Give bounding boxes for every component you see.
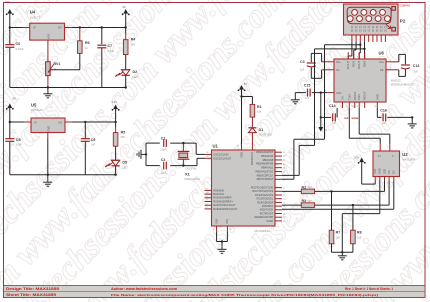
svg-text:2k2: 2k2 [308,200,313,203]
svg-text:GND: GND [378,168,382,174]
ground (C16) [408,124,417,128]
svg-text:SO: SO [392,170,396,174]
wire 5V branch to R1 [242,97,253,105]
ground (crystal) [137,150,146,159]
wire section2 ground bus [10,174,116,176]
svg-text:VI: VI [33,26,36,30]
svg-text:U1: U1 [213,144,219,149]
svg-text:D5: D5 [122,161,127,165]
svg-text:RA1/AN1: RA1/AN1 [213,192,224,196]
wire to OSC1 [196,143,204,154]
svg-text:10uF: 10uF [16,143,22,147]
svg-text:PIC16F84A: PIC16F84A [255,229,271,233]
svg-text:RC3/SCK/SCL: RC3/SCK/SCL [256,197,273,201]
svg-text:Author: www.fadstechsessions.c: Author: www.fadstechsessions.com [111,287,177,291]
power terminal -5V (down arrow) [318,117,327,132]
svg-text:red: red [344,116,349,120]
svg-text:RA4/T0CKI/C1OUT: RA4/T0CKI/C1OUT [213,203,236,207]
svg-text:SCK: SCK [382,168,386,174]
resistor R8 [351,205,362,252]
crystal X1 [178,143,201,181]
svg-text:File Name: electronicscomponen: File Name: electronicscomponent-testing/… [111,293,378,297]
svg-text:LM78L05: LM78L05 [31,108,43,112]
wire TX net (RB7 to P2) [282,45,360,180]
junction node 9V/C8 [9,121,11,123]
svg-text:T+: T+ [378,154,382,158]
wire RX net (RB6 to P2) [282,49,365,175]
svg-text:T1OUT: T1OUT [346,61,350,70]
power terminal 5V [238,82,248,144]
svg-text:Sheet Title: MAX31855: Sheet Title: MAX31855 [6,293,56,297]
svg-text:1uF: 1uF [300,68,305,72]
svg-text:C6: C6 [16,42,21,46]
svg-text:2k2: 2k2 [308,186,313,189]
svg-text:Rev: 1 Sheet #: 1 Num of S: Rev: 1 Sheet #: 1 Num of Sheets: 1 [345,287,393,291]
resistor R2 [301,185,314,193]
svg-text:VS-: VS- [341,96,345,100]
svg-text:1uF: 1uF [381,121,386,125]
svg-text:white: white [351,116,359,120]
junction node ground stem [341,251,343,253]
svg-text:C3: C3 [300,60,305,64]
svg-text:COMPIM: COMPIM [399,5,409,8]
svg-text:OSC1/CLKIN: OSC1/CLKIN [213,152,228,156]
svg-text:VSS: VSS [225,219,229,224]
LED D2 [115,55,137,88]
svg-text:C13: C13 [413,64,420,68]
junction node C16 right [411,116,413,118]
svg-text:T2IN: T2IN [357,94,361,100]
wire U1 VSS pins to ground [217,232,228,249]
junction node D5 to bus [114,174,116,176]
svg-text:FREQ=1MHz: FREQ=1MHz [185,177,201,181]
svg-text:VCC: VCC [336,91,342,95]
junction node RX join [363,48,365,50]
svg-text:R1OUT: R1OUT [353,91,357,100]
svg-text:R7: R7 [336,230,341,234]
regulator U5 LM78L05 [27,102,68,132]
junction node 5V/R1 branch [240,95,242,97]
junction node TX join [359,44,361,46]
svg-text:RE3/MCLR/VPP: RE3/MCLR/VPP [255,215,274,219]
capacitor C8 [5,122,22,175]
svg-text:CS: CS [387,170,391,174]
wire to OSC2 [197,158,205,165]
U2 pin stubs [373,144,394,185]
junction node crystal bottom [182,164,184,166]
wire CS net (U1 to U2 via R3) [282,180,389,205]
svg-text:MAX232: MAX232 [391,79,402,83]
svg-text:LM317T: LM317T [30,16,41,20]
wire R7/R8 ground bus [332,251,353,253]
junction node R7 top [330,190,332,192]
svg-text:RB0/AN12/INT: RB0/AN12/INT [256,150,273,154]
svg-text:Design Title: MAX31855: Design Title: MAX31855 [6,287,59,291]
ground (U1 VSS) [218,249,227,253]
junction node C14 branch [320,116,322,118]
diode D1 [248,117,271,144]
svg-text:ADJ: ADJ [48,33,51,38]
svg-text:22pF: 22pF [161,148,167,152]
wire crystal top branch [146,142,196,144]
svg-text:MAX31855: MAX31855 [402,157,415,161]
junction node C15/VCC [320,91,322,93]
svg-text:T1IN: T1IN [347,94,351,100]
svg-text:C2+: C2+ [379,60,384,64]
LED D5 [105,146,127,175]
svg-text:0.1uF: 0.1uF [108,49,115,53]
capacitor C1 [161,137,167,152]
capacitor C16 [377,108,412,125]
svg-text:GND: GND [375,94,379,100]
svg-text:9V: 9V [123,5,126,9]
resistor R5 [113,122,125,146]
wire SCK net (U1 to U2 via R2) [282,180,385,191]
svg-text:560: 560 [131,42,136,46]
svg-text:RA3/AN3/VREF+: RA3/AN3/VREF+ [213,199,233,203]
svg-text:R2IN: R2IN [363,61,367,67]
ground (R7/R8) [338,252,347,259]
regulator U4 LM317T [26,10,68,47]
svg-text:R2: R2 [302,185,307,189]
svg-text:C1: C1 [161,137,166,141]
title block [4,286,426,298]
svg-text:C9: C9 [91,138,96,142]
wire crystal bottom branch [146,165,197,167]
junction node crystal gnd tap [145,153,147,155]
svg-text:R3: R3 [302,199,307,203]
net label red [344,116,349,120]
P2 pin stubs [352,35,386,42]
svg-text:C14: C14 [329,104,336,108]
capacitor C9 [81,122,96,175]
wire red (thermocouple +) [349,108,380,144]
svg-text:5V: 5V [244,82,247,86]
svg-text:RC2/P1A/CCP1: RC2/P1A/CCP1 [255,193,274,197]
wire U2 GND to ground bus [342,180,380,252]
svg-text:U2: U2 [402,152,408,157]
thermocouple amplifier U2 MAX31855 [373,151,416,177]
power terminal 9V (section 1 output) [122,5,130,28]
svg-text:RA0/AN0: RA0/AN0 [213,188,224,192]
wire VCC node down to C14 node [320,93,322,118]
wire U4 VO output rail [65,27,126,29]
svg-text:R1: R1 [257,105,262,109]
svg-text:C2-: C2- [380,68,384,72]
capacitor C6 [5,28,24,88]
wire RV1 wiper to R6 bottom [50,53,80,69]
svg-text:VCC: VCC [373,168,377,174]
junction node bus/ground [47,86,49,88]
svg-text:DIODE-LED: DIODE-LED [259,134,272,137]
svg-text:RC7/RX/DT: RC7/RX/DT [260,211,274,215]
svg-text:U4: U4 [30,10,36,15]
junction node R8 top [352,204,354,206]
svg-text:U6: U6 [379,51,385,56]
svg-text:RB4/AN11: RB4/AN11 [261,166,273,170]
svg-text:RC0/T1OSO/T1CKI: RC0/T1OSO/T1CKI [251,186,274,190]
svg-text:1uF: 1uF [332,121,337,125]
power terminal 3.3V (U2 supply) [354,155,366,184]
svg-text:VSS: VSS [214,219,218,224]
wire U5 VO output rail [65,121,116,123]
power terminal 12V [5,0,14,28]
svg-text:VO: VO [58,121,62,125]
svg-text:1uF: 1uF [305,96,310,100]
svg-text:C7: C7 [108,44,113,48]
capacitor C7 [97,28,114,88]
capacitor C14 [321,104,337,125]
ground (C15) [291,100,300,104]
svg-text:C8: C8 [16,138,21,142]
svg-text:C15: C15 [304,84,311,88]
power terminal 9V (section 2 input) [6,97,16,123]
svg-text:RB5/AN13/T1G: RB5/AN13/T1G [255,169,273,173]
connector P2 COMPIM (DB9) [344,4,410,35]
resistor R3 [301,199,314,207]
svg-text:LED: LED [133,75,138,79]
svg-text:RA2/AN2/VREF-: RA2/AN2/VREF- [213,196,232,200]
wire white (thermocouple -) [359,108,390,144]
svg-text:10k: 10k [257,110,262,114]
capacitor C3 (electrolytic) [300,53,322,78]
svg-text:X1: X1 [185,172,191,177]
capacitor C13 (electrolytic) [399,54,420,76]
microcontroller U1 PIC16F84A [212,144,276,233]
junction node at 12V/C6 [9,26,11,28]
svg-text:U5: U5 [31,102,37,107]
svg-text:R1IN: R1IN [352,61,356,67]
svg-text:GND: GND [47,126,51,132]
U6 pin stubs [322,52,399,108]
junction node R6 top [79,26,81,28]
wire U2 VCC to 3.3V [362,180,376,184]
svg-text:RC4/SDI/SDA: RC4/SDI/SDA [257,200,273,204]
svg-text:C16: C16 [380,108,387,112]
svg-text:R5: R5 [121,130,126,134]
svg-text:3.3V: 3.3V [354,155,360,159]
svg-text:RC1/T1OSI/CCP2: RC1/T1OSI/CCP2 [253,189,274,193]
svg-text:VO: VO [58,26,62,30]
svg-text:R4: R4 [131,38,136,42]
svg-text:1uF: 1uF [413,69,418,73]
resistor R1 [250,104,262,117]
svg-text:560: 560 [121,135,126,139]
svg-text:RB6/ICSPCLK: RB6/ICSPCLK [257,173,274,177]
svg-text:R6: R6 [85,41,90,45]
wire P2 pin2 column (RX) [359,42,360,59]
wire left join of C1/C2 [145,143,147,166]
capacitor C2 [161,158,167,174]
svg-text:0.33uF: 0.33uF [16,47,24,51]
svg-text:RB3/AN9/PGM: RB3/AN9/PGM [256,162,273,166]
svg-text:MODFILE=MAX232: MODFILE=MAX232 [391,83,415,87]
wire section1 ground bus [10,87,126,89]
junction node C9 top [84,121,86,123]
svg-text:22pF: 22pF [161,170,167,174]
junction node VSS bus [221,240,223,242]
svg-text:C1+: C1+ [336,60,341,64]
resistor R7 [329,191,340,252]
ground (section 2) [43,182,52,186]
junction node C7 top [101,26,103,28]
svg-text:T-: T- [392,154,394,158]
svg-text:RB7/ICSPDAT: RB7/ICSPDAT [257,177,274,181]
ground (section 1) [43,88,52,98]
svg-text:C1-: C1- [336,68,340,72]
svg-text:R8: R8 [357,230,362,234]
svg-text:RA5/MCLR: RA5/MCLR [250,152,254,165]
svg-text:D2: D2 [133,70,138,74]
resistor R4 [123,28,135,55]
junction node D2 to bus [125,86,127,88]
svg-text:P2: P2 [400,19,406,24]
svg-text:1k8: 1k8 [336,235,341,239]
potentiometer RV1 [46,40,61,87]
wire U5 GND pin down [47,133,49,183]
svg-text:RC5/SDO: RC5/SDO [262,204,273,208]
svg-text:D1: D1 [259,128,264,132]
wire SO net (U1 to U2) [282,180,394,209]
power terminal 3.3V (section 2 output) [112,100,120,122]
svg-text:1k8: 1k8 [357,235,362,239]
U1 pin stubs and numbers [205,144,287,232]
svg-text:VDD: VDD [239,152,243,158]
wire P2 pin6 jog to U6 [354,42,356,59]
resistor R6 [78,28,90,54]
svg-text:3.3V: 3.3V [112,100,118,104]
svg-text:CRYSTAL: CRYSTAL [185,167,197,171]
junction node R5/3.3V [114,121,116,123]
svg-text:RB2/AN8: RB2/AN8 [263,158,274,162]
wire P2 pin7 column (TX) [364,42,366,59]
wire P2 pin1 jog to U6 [348,42,352,59]
svg-text:C2: C2 [161,158,166,162]
net label white [351,116,359,120]
wire 12V rail to U4 VI [10,27,30,29]
svg-text:VI: VI [34,121,37,125]
wire 9V rail to U5 VI [10,121,31,123]
svg-text:OSC2/CLKOUT: OSC2/CLKOUT [213,156,231,160]
svg-text:T2OUT: T2OUT [357,61,361,70]
svg-text:9V: 9V [13,97,16,101]
junction node bus2/ground [47,174,49,176]
junction node crystal top [182,142,184,144]
svg-text:VCAP: VCAP [266,219,273,223]
capacitor C15 [295,84,327,100]
junction node R4/9V [125,26,127,28]
svg-text:RA5/AN4/SS/C2OUT: RA5/AN4/SS/C2OUT [213,207,238,211]
svg-text:1uF: 1uF [91,143,96,147]
driver U6 MAX232 [334,51,414,103]
svg-text:RV1: RV1 [54,62,61,66]
svg-text:RC6/TX/CK: RC6/TX/CK [260,208,274,212]
svg-text:LED: LED [122,165,127,169]
svg-text:RB1/AN10: RB1/AN10 [261,154,274,158]
svg-text:R2OUT: R2OUT [363,91,367,100]
svg-text:12V: 12V [5,0,10,4]
